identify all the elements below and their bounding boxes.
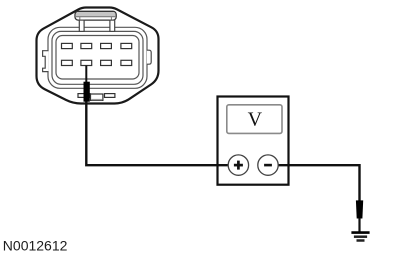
wire: probe to voltmeter plus terminal <box>86 102 228 166</box>
svg-text:V: V <box>248 109 263 131</box>
left keying notch <box>43 51 49 72</box>
ground symbol line 1 <box>351 231 369 234</box>
connector outer shell <box>37 8 159 104</box>
bottom latch bar left <box>78 94 90 98</box>
wire: minus terminal to ground drop <box>278 165 360 201</box>
bottom latch bar right <box>105 94 115 98</box>
probe lead from pin 6 <box>85 66 87 83</box>
voltmeter display <box>227 105 282 134</box>
connector body outline 1 <box>48 27 147 88</box>
bottom latch slot middle <box>91 94 103 100</box>
connector cavity outline <box>56 36 139 80</box>
minus terminal <box>258 155 278 175</box>
pin 2 <box>81 43 92 48</box>
svg-text:N0012612: N0012612 <box>3 238 68 253</box>
right keying bump <box>147 50 151 64</box>
pin 4 <box>121 43 132 48</box>
connector body outline 2 <box>52 31 143 84</box>
ground symbol line 2 <box>354 235 367 238</box>
pin 6 (probed) <box>81 60 92 65</box>
pin 3 <box>101 43 112 48</box>
ground symbol line 3 <box>357 239 365 242</box>
plus terminal <box>228 155 248 175</box>
probe tip at connector <box>84 82 90 102</box>
ground lead <box>358 218 360 233</box>
pin 5 <box>62 60 73 65</box>
pin 1 <box>62 43 73 48</box>
ground probe tip <box>356 200 363 218</box>
pin 8 <box>121 60 132 65</box>
pin 7 <box>101 60 112 65</box>
top latch tab <box>75 11 116 31</box>
voltmeter box <box>218 97 289 185</box>
